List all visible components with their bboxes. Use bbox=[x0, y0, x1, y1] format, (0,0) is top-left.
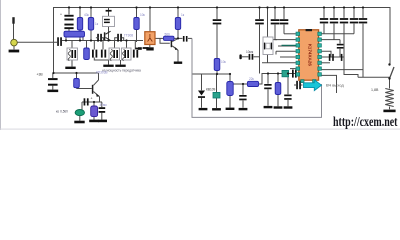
svg-text:560: 560 bbox=[165, 32, 171, 36]
svg-text:10к: 10к bbox=[140, 13, 146, 17]
svg-text:1к: 1к bbox=[95, 22, 99, 26]
svg-text:К174ХА26: К174ХА26 bbox=[308, 44, 313, 66]
svg-text:ко 0,5Вт: ко 0,5Вт bbox=[56, 109, 69, 113]
svg-text:ГТ308: ГТ308 bbox=[124, 33, 133, 37]
svg-text:43к: 43к bbox=[84, 13, 90, 17]
svg-text:http://cxem.net: http://cxem.net bbox=[333, 114, 398, 129]
svg-text:на мощность передатчика: на мощность передатчика bbox=[102, 69, 141, 73]
svg-text:+: + bbox=[91, 97, 93, 101]
svg-text:10к: 10к bbox=[221, 60, 227, 64]
svg-text:1,8В: 1,8В bbox=[371, 88, 379, 92]
svg-text:КП303Б: КП303Б bbox=[96, 70, 108, 74]
svg-text:10мк: 10мк bbox=[246, 50, 254, 54]
svg-text:22к: 22к bbox=[249, 77, 255, 81]
svg-text:+: + bbox=[60, 13, 62, 17]
svg-text:1к: 1к bbox=[181, 13, 185, 17]
svg-text:КВ109: КВ109 bbox=[206, 87, 216, 91]
svg-text:ВЧ выход: ВЧ выход bbox=[326, 83, 344, 88]
svg-text:+3В: +3В bbox=[37, 73, 44, 77]
svg-text:47мк: 47мк bbox=[100, 103, 108, 107]
